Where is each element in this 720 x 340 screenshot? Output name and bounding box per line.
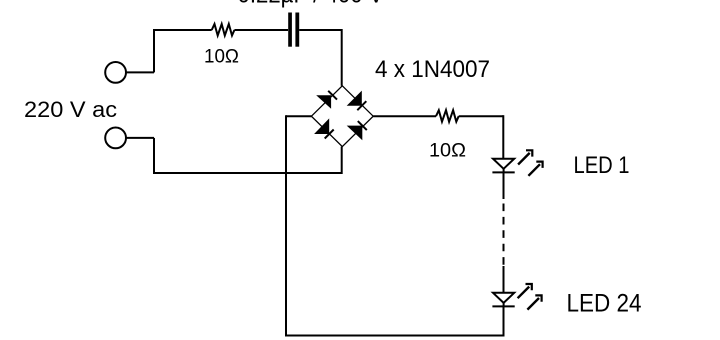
- terminal J1 (top input circle): [105, 62, 126, 83]
- wire LED 1 to dashed segment: [503, 172, 505, 199]
- svg-text:0.22µF / 400 V: 0.22µF / 400 V: [238, 0, 384, 9]
- wire capacitor C1 to corner: [299, 29, 342, 31]
- wire riser down to bottom ac rail: [153, 138, 155, 173]
- diode D4 (bottom-right, cathode to right node): [347, 121, 367, 140]
- svg-text:220 V ac: 220 V ac: [24, 97, 117, 122]
- diode D3 (bottom-left, cathode to bottom node): [314, 118, 334, 138]
- LED 1 light arrow a: [518, 150, 532, 164]
- svg-text:LED 1: LED 1: [574, 152, 630, 179]
- LED 1 symbol: [492, 159, 514, 173]
- diode D2 (top-right, cathode to right node): [347, 91, 367, 111]
- wire bridge minus node to left return: [286, 115, 311, 117]
- capacitor C1 left plate: [288, 13, 292, 47]
- LED 24 light arrow a: [518, 284, 532, 298]
- wire dashed (more LEDs in series): [503, 204, 505, 267]
- LED 24 symbol: [492, 293, 514, 307]
- svg-text:10Ω: 10Ω: [429, 141, 466, 162]
- resistor R2 zigzag: [436, 110, 459, 122]
- wire from J2 to riser: [127, 137, 155, 139]
- wire riser up to top rail: [153, 30, 155, 72]
- wire from J1 to riser: [127, 71, 155, 73]
- wire top rail to resistor R1: [153, 29, 212, 31]
- wire dashed segment to LED 24: [503, 266, 505, 293]
- wire return vertical: [285, 115, 287, 336]
- terminal J2 (bottom input circle): [105, 127, 126, 148]
- wire up to bridge bottom node: [341, 147, 343, 174]
- wire bottom return rail: [285, 335, 503, 337]
- svg-text:LED 24: LED 24: [567, 290, 642, 318]
- wire resistor R1 to capacitor C1: [234, 29, 288, 31]
- wire down to LED 1: [502, 115, 504, 159]
- wire down to bridge top node: [341, 29, 343, 86]
- svg-text:10Ω: 10Ω: [204, 47, 239, 68]
- resistor R1 zigzag: [212, 24, 235, 36]
- diode D1 (top-left, cathode to top node): [316, 91, 337, 109]
- wire bridge plus node to resistor R2: [373, 115, 436, 117]
- LED 24 light arrow b: [527, 295, 541, 309]
- svg-text:4 x 1N4007: 4 x 1N4007: [375, 56, 490, 83]
- capacitor C1 right plate: [295, 13, 299, 47]
- wire LED 24 to bottom rail: [503, 306, 505, 336]
- wire resistor R2 to LED column: [459, 115, 504, 117]
- bridge rectifier diamond outline: [311, 86, 373, 147]
- LED 1 light arrow b: [528, 162, 542, 176]
- wire bottom ac rail to bridge: [153, 172, 342, 174]
